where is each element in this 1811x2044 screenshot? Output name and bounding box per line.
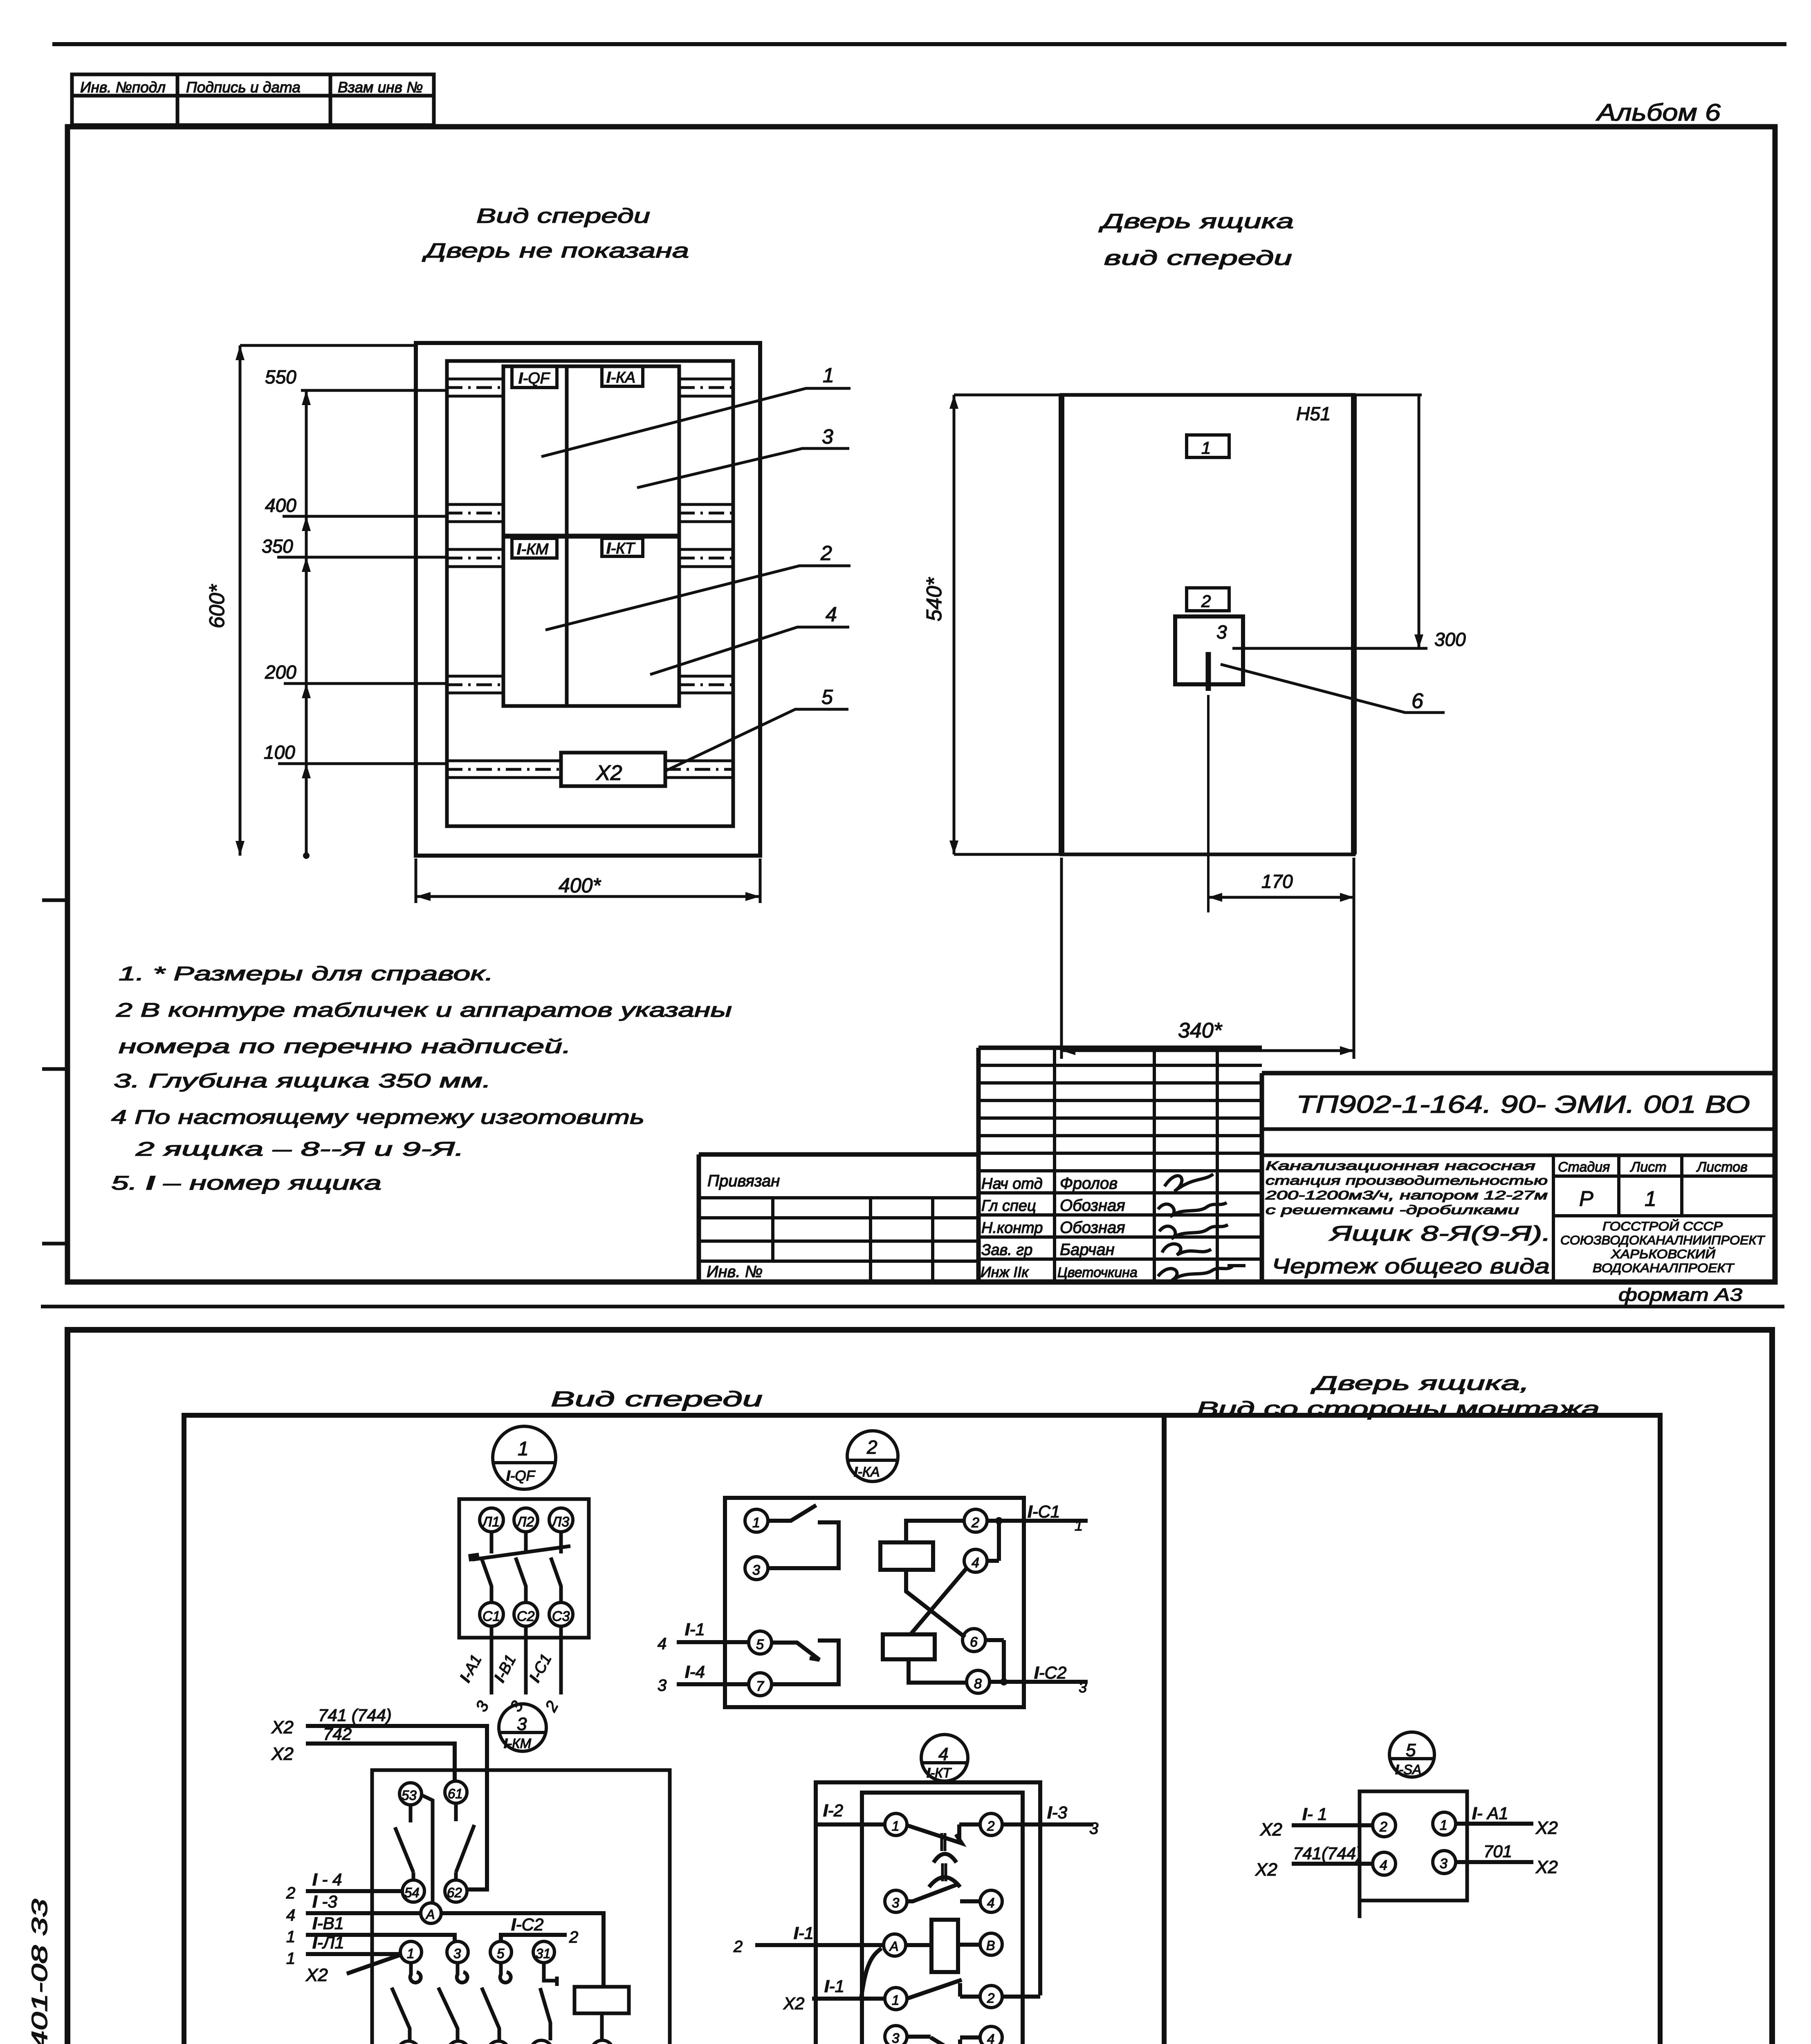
sheet 1 drawing frame: [67, 127, 1775, 1282]
svg-text:Цветочкина: Цветочкина: [1057, 1265, 1138, 1280]
svg-text:Х2: Х2: [271, 1744, 294, 1764]
wire terminal 1 to 1-А1 X2: [1456, 1822, 1533, 1826]
wire coil to terminal B: [600, 2013, 604, 2040]
svg-text:2: 2: [866, 1437, 877, 1458]
wire out 1-3: [1002, 1822, 1093, 1827]
svg-text:1: 1: [892, 1992, 899, 2008]
wire 1-С2 tail from terminal 5: [501, 1935, 567, 1941]
svg-text:1: 1: [1201, 438, 1211, 457]
aux NC contact 31-32: [540, 1963, 557, 2040]
svg-text:Х2: Х2: [783, 1994, 804, 2013]
svg-text:ГОССТРОЙ СССР: ГОССТРОЙ СССР: [1602, 1219, 1723, 1233]
wire in 2 1-4 to terminal 54: [306, 1889, 402, 1893]
svg-text:Нач отд: Нач отд: [981, 1175, 1043, 1192]
DIN rail B: [447, 504, 733, 522]
bottom dimension 400*: [416, 858, 760, 903]
label plate 1-KA: [602, 366, 643, 386]
svg-text:I - 4: I - 4: [312, 1870, 342, 1889]
relay 1-KA position balloon: [847, 1431, 898, 1481]
node A: [421, 1903, 441, 1923]
svg-text:I-QF: I-QF: [506, 1468, 536, 1484]
aux contact hooks: [410, 1963, 511, 1983]
terminal 4: [964, 1549, 987, 1572]
wire out 1-С2: [990, 1680, 1088, 1684]
svg-text:400: 400: [265, 495, 296, 516]
terminal 2 row4: [980, 1986, 1002, 2008]
svg-text:4 По настоящему чертежу из: 4 По настоящему чертежу изготовить: [111, 1107, 644, 1128]
aux terminal 6: [487, 2041, 509, 2044]
dimension 170: [1353, 858, 1355, 948]
svg-text:Вид со стороны монтажа: Вид со стороны монтажа: [1197, 1398, 1600, 1420]
cabinet outer box: [416, 343, 760, 856]
wire terminal 2 row4 to outer edge: [1002, 1995, 1040, 1999]
svg-text:Дверь не показана: Дверь не показана: [422, 239, 689, 262]
apparatus group block 1-QF / 1-KA: [503, 366, 679, 536]
svg-text:Лист: Лист: [1630, 1159, 1667, 1175]
svg-text:3: 3: [1079, 1679, 1087, 1696]
svg-text:Инв. №: Инв. №: [707, 1263, 763, 1281]
svg-text:2: 2: [1201, 592, 1211, 611]
svg-text:Дверь ящика: Дверь ящика: [1098, 210, 1294, 233]
switch 1-SA position balloon: [1389, 1732, 1434, 1777]
terminal B: [980, 1933, 1002, 1955]
svg-text:I-КА: I-КА: [606, 369, 635, 386]
DIN rail E: [447, 761, 733, 778]
svg-text:54: 54: [404, 1885, 420, 1900]
svg-text:340*: 340*: [1178, 1019, 1223, 1042]
svg-text:Инж IIк: Инж IIк: [981, 1264, 1029, 1280]
terminal С1: [480, 1602, 503, 1626]
svg-text:ТП902-1-164. 90- ЭМИ. 001 ВО: ТП902-1-164. 90- ЭМИ. 001 ВО: [1296, 1091, 1750, 1118]
svg-text:Л1: Л1: [482, 1514, 500, 1530]
door plate 1: [1187, 435, 1229, 457]
terminal Л2: [514, 1508, 538, 1532]
svg-text:I-В1: I-В1: [491, 1652, 520, 1685]
svg-text:I-В1: I-В1: [312, 1914, 344, 1933]
wire 2 to coil K1 top: [906, 1521, 964, 1542]
breaker crossbar: [472, 1546, 570, 1560]
terminal 3: [745, 1557, 768, 1580]
header strip table (Инв № подл / Подпись и дата / Взам инв №): [72, 74, 434, 125]
svg-text:540*: 540*: [922, 577, 946, 621]
wire in 1 1-В1 to terminal 3: [306, 1935, 455, 1941]
contact blade 5-7: [772, 1641, 839, 1684]
terminal 1 row1: [885, 1813, 907, 1836]
svg-text:I-2: I-2: [823, 1801, 843, 1820]
svg-text:номера по перечню надпис: номера по перечню надписей.: [119, 1036, 571, 1058]
coil 1-KM: [574, 1987, 629, 2013]
terminal 62: [445, 1880, 467, 1902]
svg-text:С1: С1: [482, 1609, 500, 1624]
aux terminal 1: [400, 1941, 422, 1963]
svg-text:I-QF: I-QF: [518, 370, 550, 387]
svg-text:Барчан: Барчан: [1060, 1241, 1115, 1259]
svg-text:1: 1: [1075, 1517, 1083, 1534]
svg-text:С2: С2: [517, 1609, 535, 1624]
signatures: [1158, 1174, 1245, 1280]
door lock square 3: [1175, 616, 1243, 684]
door outline: [1061, 395, 1354, 854]
svg-text:формат А3: формат А3: [1618, 1285, 1743, 1305]
wire to 1-А1: [490, 1626, 494, 1694]
svg-text:вид спереди: вид спереди: [1104, 247, 1292, 269]
wire X2 742 to terminal 61: [306, 1744, 455, 1781]
svg-text:I-А1: I-А1: [457, 1652, 485, 1685]
wire terminal 3 to 701 X2: [1456, 1860, 1533, 1864]
breaker 1-QF position balloon: [493, 1426, 556, 1489]
svg-text:Взам инв №: Взам инв №: [338, 79, 423, 96]
junction 6-8 right: [985, 1640, 1004, 1682]
svg-text:3: 3: [1089, 1820, 1098, 1838]
svg-text:Х2: Х2: [596, 761, 622, 785]
wire to 1-В1: [524, 1626, 528, 1694]
title block sheet 1 outer borders: [699, 1048, 1775, 1282]
terminal 4 row5: [980, 2026, 1002, 2044]
привязан sub-table: [699, 1198, 978, 1282]
svg-text:станция производительностью: станция производительностью: [1266, 1173, 1548, 1188]
svg-text:1: 1: [823, 364, 834, 387]
svg-text:2: 2: [820, 542, 832, 565]
svg-text:200-1200м3/ч, напором 12-27м: 200-1200м3/ч, напором 12-27м: [1265, 1188, 1548, 1202]
svg-text:А: А: [425, 1907, 435, 1922]
aux contact blade 1-2: [392, 1988, 410, 2041]
svg-text:5: 5: [756, 1637, 764, 1652]
signature table small rows: [978, 1048, 1262, 1281]
wire in X2 1-1 to terminal 1 row4: [812, 1997, 885, 2001]
svg-text:Стадия: Стадия: [1558, 1159, 1610, 1175]
terminal 8: [967, 1670, 990, 1693]
wire in 2 1-1 to terminal A: [755, 1943, 884, 1947]
svg-text:741 (744): 741 (744): [318, 1706, 392, 1725]
dimension 300 (top right): [1354, 394, 1422, 397]
sheet 2 enclosure rect (views container): [184, 1415, 1660, 2044]
svg-text:I-КТ: I-КТ: [606, 540, 636, 557]
svg-text:2: 2: [542, 1698, 562, 1715]
aux terminal 31: [533, 1941, 554, 1963]
svg-text:А: А: [889, 1939, 898, 1954]
aux terminal 5: [490, 1941, 512, 1963]
svg-text:1: 1: [286, 1950, 295, 1968]
wire in X2 to terminal 1: [347, 1955, 400, 1974]
svg-text:Вид спереди: Вид спереди: [551, 1387, 763, 1411]
chain dimension line levels: [305, 390, 308, 856]
wire node A to coil: [441, 1913, 604, 1987]
terminal 1: [745, 1509, 768, 1532]
svg-text:Обозная: Обозная: [1060, 1219, 1125, 1237]
label plate 1-KT: [602, 538, 643, 556]
contact blade 1-3: [768, 1505, 839, 1568]
DIN rail A: [447, 379, 733, 396]
terminal 2: [1373, 1814, 1396, 1837]
svg-text:I -3: I -3: [312, 1892, 337, 1911]
branch wire to terminal A: [861, 1948, 882, 1999]
label plate 1-QF: [512, 366, 557, 388]
svg-text:I-КМ: I-КМ: [504, 1736, 532, 1751]
svg-text:1: 1: [1645, 1187, 1656, 1211]
terminal С2: [514, 1602, 538, 1626]
time relay 1-KT position balloon: [921, 1735, 968, 1781]
terminal 3 row5: [885, 2026, 907, 2044]
terminal 2 row1: [980, 1813, 1002, 1836]
leader callout 5: [665, 709, 848, 771]
svg-text:Х2: Х2: [305, 1965, 328, 1985]
contact blade row4: [907, 1980, 980, 1999]
designation cell: [1262, 1127, 1775, 1131]
svg-text:Альбом 6: Альбом 6: [1596, 99, 1721, 126]
leader callout 3: [637, 448, 849, 488]
wire in 4 1-1 to terminal 5: [677, 1640, 749, 1644]
terminal Л3: [549, 1508, 573, 1532]
svg-text:Х2: Х2: [271, 1717, 294, 1737]
svg-text:I-1: I-1: [824, 1977, 844, 1996]
leader callout 1: [541, 388, 851, 457]
svg-text:2: 2: [987, 1818, 994, 1833]
terminal 4: [1373, 1852, 1396, 1875]
wire X2 741(744) to terminal 4: [1292, 1862, 1373, 1866]
svg-text:3: 3: [472, 1698, 492, 1715]
svg-text:3: 3: [1440, 1856, 1447, 1871]
switch 1-SA outline: [1360, 1791, 1467, 1901]
wire X2 741(744) to terminal 62: [306, 1726, 487, 1889]
page top edge line: [52, 42, 1786, 46]
aux contact blade 3-4: [438, 1988, 458, 2041]
svg-text:61: 61: [448, 1786, 463, 1801]
svg-text:3: 3: [658, 1676, 667, 1694]
svg-text:Гл спец: Гл спец: [981, 1197, 1036, 1215]
svg-text:4: 4: [658, 1635, 667, 1653]
svg-text:Листов: Листов: [1696, 1159, 1748, 1175]
svg-text:1: 1: [407, 1946, 414, 1961]
svg-text:2: 2: [971, 1515, 979, 1531]
svg-text:Л3: Л3: [551, 1514, 569, 1530]
svg-text:5: 5: [821, 686, 833, 708]
wire in 4 1-3 to node A: [306, 1911, 421, 1915]
svg-text:6: 6: [970, 1634, 978, 1650]
aux terminal 2: [397, 2041, 420, 2044]
delay symbol hatch and arcs: [942, 1833, 945, 1851]
svg-text:С3: С3: [552, 1609, 570, 1624]
svg-text:1: 1: [286, 1928, 295, 1946]
svg-text:742: 742: [323, 1724, 352, 1744]
svg-text:741(744): 741(744): [1293, 1844, 1362, 1863]
description row border: [1262, 1154, 1775, 1157]
centerline of lock down to 170 dim: [1207, 695, 1210, 912]
svg-text:600*: 600*: [205, 584, 229, 628]
svg-text:Х2: Х2: [1260, 1820, 1282, 1840]
svg-text:I-4: I-4: [685, 1662, 705, 1681]
fold tick marks on left edge: [42, 900, 67, 1244]
svg-text:Инв. №подл: Инв. №подл: [80, 79, 166, 96]
leader callout 2: [545, 566, 851, 630]
contact blade 53-54: [395, 1805, 413, 1880]
sheet 1 paper bottom edge: [41, 1305, 1784, 1309]
aux terminal 4: [447, 2041, 469, 2044]
divider between front view and door view: [1162, 1415, 1167, 2044]
svg-text:53: 53: [402, 1788, 417, 1803]
terminal 7: [749, 1673, 772, 1696]
svg-text:3: 3: [892, 2031, 900, 2044]
dimension 340*: [1061, 858, 1354, 1059]
cabinet inner panel: [447, 361, 733, 826]
terminal 5: [749, 1631, 772, 1654]
svg-text:2: 2: [1379, 1819, 1387, 1835]
svg-text:1: 1: [518, 1438, 529, 1460]
svg-text:I-SA: I-SA: [1395, 1762, 1421, 1777]
svg-text:5: 5: [1406, 1740, 1416, 1760]
contact blade row5: [907, 2037, 980, 2044]
sheet 2 drawing frame: [67, 1330, 1772, 2044]
svg-text:100: 100: [264, 742, 295, 763]
wire in 1 1-Л1 to terminal 1: [306, 1952, 400, 1956]
svg-text:5. I – номер ящика: 5. I – номер ящика: [111, 1172, 381, 1194]
terminal A: [884, 1934, 906, 1956]
terminal 54: [402, 1880, 424, 1902]
svg-text:350: 350: [262, 536, 293, 557]
svg-text:I-1: I-1: [685, 1620, 705, 1639]
svg-text:4: 4: [987, 2031, 994, 2044]
terminal С3: [549, 1602, 573, 1626]
svg-text:1: 1: [892, 1818, 899, 1833]
svg-text:3: 3: [517, 1714, 527, 1734]
svg-text:4: 4: [987, 1895, 994, 1910]
terminal 2: [964, 1509, 987, 1532]
terminal Л1: [480, 1508, 503, 1532]
svg-text:3: 3: [822, 425, 833, 448]
aux contact blade 5-6: [482, 1988, 499, 2041]
terminal 1: [1433, 1812, 1456, 1835]
svg-text:I-С2: I-С2: [1034, 1663, 1066, 1682]
svg-text:1: 1: [1440, 1818, 1447, 1833]
svg-text:4: 4: [1380, 1858, 1387, 1873]
terminal 4 row2: [980, 1890, 1002, 1912]
aux terminal 32: [530, 2040, 552, 2044]
svg-text:I- А1: I- А1: [1472, 1804, 1508, 1823]
svg-text:I-КТ: I-КТ: [927, 1765, 952, 1780]
svg-text:Канализационная насосная: Канализационная насосная: [1266, 1159, 1535, 1173]
terminal 3 row2: [885, 1890, 907, 1912]
wire out 1-С1: [987, 1519, 1088, 1523]
svg-text:8: 8: [974, 1676, 982, 1692]
svg-text:Чертеж общего вида: Чертеж общего вида: [1272, 1255, 1550, 1278]
svg-text:4: 4: [286, 1906, 295, 1924]
coil K1 upper: [880, 1542, 933, 1570]
svg-text:Х2: Х2: [1535, 1818, 1558, 1838]
svg-text:I-С2: I-С2: [511, 1915, 543, 1934]
svg-text:5: 5: [497, 1946, 505, 1961]
svg-text:Обозная: Обозная: [1060, 1197, 1125, 1215]
svg-text:170: 170: [1261, 871, 1293, 892]
svg-text:Л2: Л2: [516, 1514, 534, 1530]
svg-text:2 В контуре табличек и ап: 2 В контуре табличек и аппаратов указаны: [116, 1000, 732, 1021]
aux terminal 3: [447, 1941, 468, 1963]
coil K2 lower: [883, 1634, 935, 1659]
svg-text:Привязан: Привязан: [707, 1172, 780, 1190]
DIN rail D: [447, 676, 733, 693]
DIN rail C: [447, 549, 733, 567]
svg-text:I-3: I-3: [1047, 1803, 1067, 1822]
svg-text:4: 4: [972, 1555, 979, 1571]
terminal 3: [1433, 1851, 1456, 1874]
wire coil K1 bottom cross to 6: [906, 1570, 965, 1637]
contact blade row2: [907, 1884, 980, 1901]
svg-text:I-КМ: I-КМ: [517, 541, 549, 558]
svg-text:300: 300: [1434, 629, 1466, 650]
coil 1-KT: [931, 1920, 958, 1972]
label plate 1-KM: [512, 538, 557, 558]
svg-text:7: 7: [756, 1679, 764, 1694]
svg-text:2: 2: [733, 1938, 743, 1956]
junction 2-4 right: [987, 1521, 999, 1561]
contact blade 61-62: [456, 1803, 474, 1880]
terminal 61: [445, 1781, 467, 1803]
svg-text:с решетками -дробилками: с решетками -дробилками: [1266, 1203, 1519, 1217]
svg-text:550: 550: [265, 366, 296, 388]
relay 1-KA outline: [725, 1498, 1024, 1707]
svg-text:I-КА: I-КА: [854, 1464, 880, 1480]
vertical dimension line 600*: [239, 345, 242, 856]
svg-text:3. Глубина ящика 350 мм.: 3. Глубина ящика 350 мм.: [114, 1070, 491, 1092]
svg-text:Н.контр: Н.контр: [981, 1219, 1043, 1237]
svg-text:I- 1: I- 1: [1302, 1804, 1327, 1824]
terminal B: [591, 2040, 613, 2044]
svg-text:200: 200: [265, 661, 296, 683]
wire coil K2 bottom to 8: [909, 1659, 967, 1683]
svg-text:Н51: Н51: [1296, 403, 1331, 424]
svg-text:Подпись и дата: Подпись и дата: [186, 79, 301, 96]
svg-text:1: 1: [752, 1515, 760, 1531]
wire in 3 1-4 to terminal 7: [677, 1682, 749, 1686]
delayed contact blade row1: [907, 1824, 980, 1843]
svg-text:Ящик 8-Я(9-Я).: Ящик 8-Я(9-Я).: [1329, 1222, 1551, 1246]
svg-text:I-1: I-1: [794, 1923, 814, 1943]
svg-text:3: 3: [892, 1895, 900, 1910]
svg-text:Вид спереди: Вид спереди: [476, 204, 650, 227]
svg-text:Зав. гр: Зав. гр: [981, 1242, 1032, 1259]
contactor 1-KM position balloon: [499, 1704, 546, 1751]
terminal 53: [399, 1783, 422, 1805]
wire to 1-С1: [559, 1626, 563, 1694]
svg-text:I-С1: I-С1: [1028, 1502, 1060, 1521]
svg-text:I-Л1: I-Л1: [312, 1933, 344, 1952]
svg-text:3: 3: [453, 1946, 461, 1961]
svg-text:2: 2: [286, 1884, 295, 1902]
wire X2 1-1 to terminal 2: [1292, 1823, 1373, 1827]
svg-text:31: 31: [536, 1946, 551, 1961]
terminal box X2: [561, 753, 665, 786]
svg-text:Х2: Х2: [1255, 1860, 1277, 1880]
svg-text:2: 2: [569, 1928, 578, 1946]
svg-text:3: 3: [752, 1562, 760, 1578]
wire 4 cross to coil K2 top: [910, 1568, 967, 1635]
contactor 1-KM outline: [372, 1770, 670, 2044]
vertical dimension 540*: [953, 395, 956, 854]
breaker poles: [481, 1532, 561, 1602]
wire 53 to node A: [422, 1795, 433, 1904]
svg-text:3: 3: [1216, 621, 1227, 643]
svg-text:Фролов: Фролов: [1060, 1174, 1118, 1192]
svg-text:6: 6: [1412, 689, 1423, 713]
стадия лист листов grid: [1553, 1155, 1775, 1282]
svg-text:Р: Р: [1579, 1187, 1593, 1211]
svg-text:Дверь ящика,: Дверь ящика,: [1310, 1373, 1529, 1394]
svg-text:400*: 400*: [559, 874, 601, 897]
leader callout 4: [650, 627, 849, 675]
svg-text:4: 4: [938, 1744, 948, 1764]
svg-text:701: 701: [1483, 1842, 1512, 1861]
svg-text:62: 62: [447, 1885, 462, 1900]
svg-text:ХАРЬКОВСКИЙ: ХАРЬКОВСКИЙ: [1611, 1246, 1716, 1261]
svg-text:В: В: [986, 1938, 995, 1953]
